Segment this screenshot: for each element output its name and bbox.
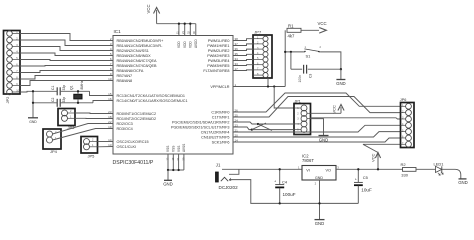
wire VCC to JP6 pin7 [363, 144, 401, 169]
svg-text:RB4/AN4/CN6/IC7/QEA: RB4/AN4/CN6/IC7/QEA [117, 59, 158, 63]
junction crystal bottom [77, 102, 79, 104]
ground GND (IC1 VSS) [167, 170, 169, 180]
svg-text:IC1: IC1 [114, 29, 122, 34]
svg-text:C1: C1 [51, 86, 55, 90]
svg-text:100uF: 100uF [283, 192, 296, 197]
svg-text:C1TX/RF1: C1TX/RF1 [212, 115, 230, 119]
wire JP7 pin 8 to MCLR net [267, 78, 269, 87]
JP2 pin 5 circle [7, 57, 13, 63]
connector JP5 (2-pin jumper) [81, 137, 98, 154]
wire IC1 to JP7 pin 5 [233, 60, 253, 61]
connector JP3 (2-pin jumper) [58, 109, 75, 126]
IC1 VSS AVSS ground pins [167, 154, 169, 170]
svg-text:RD0/INT1/OC1/EMUC2: RD0/INT1/OC1/EMUC2 [117, 112, 157, 116]
wire IC1 RF4 to JP6 pin4 [233, 125, 401, 132]
svg-text:GND: GND [458, 180, 468, 185]
svg-text:PGC/EMUC/SDI1/SDA/U1RX/RF2: PGC/EMUC/SDI1/SDA/U1RX/RF2 [172, 120, 230, 124]
resistor R1 4k7 [287, 28, 301, 32]
wire JP5 pin2 to IC1 OSC2 [98, 141, 114, 143]
voltage regulator IC2 7805T [302, 166, 336, 181]
JP6 pin 2 circle [406, 110, 412, 116]
wire JP2 pin 2 to IC1 RB1 [20, 40, 113, 46]
junction [251, 128, 253, 130]
junction [189, 23, 191, 25]
JP6 pin 6 circle [406, 135, 412, 141]
wire JP3 pin1 to IC1 RD1 [75, 117, 113, 119]
junction [177, 169, 179, 171]
ground GND (JP1) [319, 135, 329, 137]
junction [167, 169, 169, 171]
wire IC1 RF6 to JP6 pin6 [233, 138, 401, 142]
svg-text:RC14/CN0/T1CK/U1ARX/SOSCO/EMUC: RC14/CN0/T1CK/U1ARX/SOSCO/EMUC1 [117, 99, 188, 103]
junction [178, 23, 180, 25]
wire IC2 VO to VCC rail [336, 168, 403, 170]
ground GND (LED1) [459, 178, 467, 180]
JP7 pin 5 circle [263, 57, 268, 62]
svg-text:Q1: Q1 [70, 85, 74, 90]
svg-text:VI: VI [306, 169, 310, 173]
svg-text:VDD: VDD [183, 41, 187, 48]
JP7 pin 2 circle [263, 41, 268, 46]
junction [340, 68, 342, 70]
svg-text:GND: GND [315, 176, 323, 180]
junction [279, 202, 281, 204]
JP2 pin 8 circle [7, 76, 13, 82]
wire IC1 RF3 to JP1 pin5 [233, 127, 294, 130]
svg-text:AVDD: AVDD [194, 39, 198, 48]
wire C3 to ground [308, 68, 341, 70]
wire IC1 to JP7 pin 4 [233, 54, 253, 55]
svg-text:PWM2H/RE3: PWM2H/RE3 [207, 54, 229, 58]
dsPIC microcontroller IC1 body [113, 36, 233, 155]
svg-text:JP5: JP5 [88, 153, 96, 158]
wire IC1 to JP7 pin 6 [233, 64, 253, 67]
power symbol VCC (JP1) [340, 107, 342, 113]
svg-text:RB7/AN7: RB7/AN7 [117, 74, 133, 78]
wire JP1 net to JP6 pin3 [311, 118, 401, 119]
JP7 pin 8 circle [263, 73, 268, 78]
wire JP2 pin 7 to IC1 RB6 [20, 71, 113, 73]
wire IC1 RF5 to JP6 pin5 [233, 132, 401, 137]
wire MCLR riser to R1 [284, 30, 286, 86]
wire crystal to IC1 RC13 [90, 91, 114, 95]
svg-text:CN17/U2RX/RF4: CN17/U2RX/RF4 [201, 130, 230, 134]
JP7 pin 7 circle [263, 67, 268, 72]
wire JP2 pin 4 to IC1 RB3 [20, 53, 113, 56]
svg-text:C4: C4 [282, 180, 288, 185]
wire R2 to LED1 [416, 168, 436, 170]
connector JP2 (10-pin header) [4, 31, 21, 95]
svg-text:DCJ0202: DCJ0202 [219, 185, 239, 190]
svg-text:100n: 100n [298, 75, 302, 83]
JP1 pin 4 circle [301, 121, 307, 127]
JP6 pin 1 circle [406, 103, 412, 109]
junction [32, 90, 34, 92]
wire MCLR to JP1 pin1 [274, 87, 294, 109]
svg-text:C2: C2 [51, 98, 55, 102]
wire MCLR to S1 [285, 51, 303, 53]
JP1 pin 2 circle [301, 110, 307, 116]
JP7 pin 6 circle [263, 62, 268, 67]
junction [357, 168, 359, 170]
wire JP2 pin 10 (ground/crystal net) [20, 90, 57, 93]
wire J1 positive to rail [222, 168, 302, 170]
svg-text:VCC: VCC [146, 4, 151, 13]
JP2 pin 1 circle [7, 31, 13, 37]
svg-text:VDD: VDD [177, 41, 181, 48]
svg-text:7806T: 7806T [302, 158, 314, 163]
connector JP1 (5-pin ICSP header) [294, 104, 311, 135]
wire JP4 pin1 to IC1 RD3 [53, 129, 114, 141]
wire JP2 pin 6 to IC1 RB5 [20, 65, 113, 68]
svg-text:DSPIC30F4011/P: DSPIC30F4011/P [113, 160, 154, 166]
svg-text:OSC2/CLKO/RC15: OSC2/CLKO/RC15 [117, 140, 149, 144]
junction crystal top [77, 90, 79, 92]
svg-text:C1RX/RF0: C1RX/RF0 [211, 110, 229, 114]
svg-text:R2: R2 [401, 162, 407, 167]
wire JP4 pin2 to IC1 RD2 [53, 124, 114, 135]
svg-text:C5: C5 [363, 175, 369, 180]
junction [267, 85, 269, 87]
svg-text:J1: J1 [216, 162, 221, 167]
svg-text:10uF: 10uF [361, 187, 372, 192]
ground GND (crystal caps) [32, 91, 34, 117]
svg-text:RB5/AN5/CN7/IC8/QEB: RB5/AN5/CN7/IC8/QEB [117, 64, 158, 68]
svg-text:GND: GND [336, 81, 346, 86]
capacitor C2 33p (bottom) [56, 99, 58, 107]
svg-text:RB3/AN3/CN5/INDX: RB3/AN3/CN5/INDX [117, 54, 152, 58]
svg-text:RB1/AN1/CN3/EMUC3/VR-: RB1/AN1/CN3/EMUC3/VR- [117, 44, 164, 48]
wire IC1 to JP7 pin 1 [233, 39, 253, 41]
junction [172, 169, 174, 171]
VCC rail to IC1 power pins [157, 23, 196, 25]
JP6 pin 5 circle [406, 129, 412, 135]
wire IC2 GND pin to ground [319, 180, 321, 219]
junction [377, 168, 379, 170]
svg-text:RB2/AN2/CN4/SS1: RB2/AN2/CN4/SS1 [117, 49, 149, 53]
svg-text:PWM3H/RE5: PWM3H/RE5 [207, 64, 229, 68]
JP6 pin 7 circle [406, 141, 412, 147]
svg-text:OSC1/CLKI: OSC1/CLKI [117, 145, 137, 149]
svg-text:VSS: VSS [172, 146, 176, 152]
connector JP4 (2-pin jumper) [43, 129, 61, 149]
wire LED1 to ground [442, 169, 461, 178]
svg-text:JP7: JP7 [254, 30, 262, 35]
JP2 pin 9 circle [7, 83, 13, 89]
svg-text:+: + [355, 177, 357, 181]
JP2 pin 4 circle [7, 50, 13, 56]
JP6 pin 4 circle [406, 122, 412, 128]
wire C3 branch [290, 52, 292, 69]
svg-text:GND: GND [315, 221, 325, 226]
svg-text:4k7: 4k7 [288, 33, 296, 38]
svg-text:PWM1H/RE1: PWM1H/RE1 [207, 44, 229, 48]
svg-text:AVSS: AVSS [182, 144, 186, 152]
JP1 pin 1 circle [301, 105, 307, 111]
wire C2 to crystal [60, 102, 93, 104]
svg-text:RD3/OC4: RD3/OC4 [117, 127, 133, 131]
switch S1 [304, 51, 306, 53]
svg-text:JP1: JP1 [295, 100, 301, 104]
power symbol VCC (JP6 supply arrow) [375, 153, 380, 159]
svg-text:R1: R1 [288, 23, 294, 28]
wire IC1 RF2 to JP1 pin4 [233, 122, 294, 124]
wire J1 second contact [229, 169, 239, 174]
svg-text:RD2/OC3: RD2/OC3 [117, 122, 133, 126]
svg-text:RB0/AN0/CN2/EMUD3/VR+: RB0/AN0/CN2/EMUD3/VR+ [117, 39, 164, 43]
power symbol VCC (IC supply) [156, 10, 158, 24]
wire S1 to ground corner [321, 52, 341, 69]
svg-text:FLTA/INT0/RE8: FLTA/INT0/RE8 [203, 69, 229, 73]
wire ground to C2 [33, 102, 57, 104]
junction [318, 202, 320, 204]
JP2 pin 3 circle [7, 44, 13, 50]
junction [32, 102, 34, 104]
svg-text:CN18/U2TX/RF5: CN18/U2TX/RF5 [201, 135, 229, 139]
connector JP6 (7-pin header) [401, 103, 415, 148]
wire IC1 to JP7 pin 3 [233, 49, 253, 50]
junction [257, 123, 259, 125]
capacitor C4 100uF electrolytic [279, 169, 281, 184]
svg-text:JP2: JP2 [5, 96, 10, 104]
svg-text:S1: S1 [306, 54, 312, 59]
ground GND (S1/C3) [340, 69, 342, 79]
wire IC1 to JP7 pin 7 [233, 69, 253, 72]
junction [284, 51, 286, 53]
wire C1 to crystal [60, 90, 89, 92]
svg-text:VSS: VSS [166, 146, 170, 152]
svg-text:33p: 33p [62, 97, 66, 103]
JP1 pin 5 circle [301, 127, 307, 133]
wire JP2 pin 1 to IC1 RB0 [20, 34, 113, 41]
svg-text:VCC: VCC [318, 21, 327, 26]
wire IC1 MCLR [233, 86, 285, 88]
JP6 pin 3 circle [406, 116, 412, 122]
svg-text:VDD: VDD [189, 41, 193, 48]
wire JP2 pin 5 to IC1 RB4 [20, 60, 113, 61]
svg-text:PWM3L/RE4: PWM3L/RE4 [208, 59, 230, 63]
svg-text:JP4: JP4 [50, 149, 58, 154]
svg-text:RD1/INT2/OC2/EMUD2: RD1/INT2/OC2/EMUD2 [117, 117, 157, 121]
power symbol VCC (right arrow) [319, 28, 326, 34]
JP2 pin 7 circle [7, 70, 13, 76]
svg-text:PWM1L/RE0: PWM1L/RE0 [208, 39, 230, 43]
wire JP2 pin 8 to IC1 RB7 [20, 76, 113, 80]
svg-text:VCC: VCC [332, 105, 337, 114]
svg-text:RC13/CN1/T2CK/U1ATX/SOSCI/EMUD: RC13/CN1/T2CK/U1ATX/SOSCI/EMUD1 [117, 94, 186, 98]
svg-text:RB6/AN6/OCFA: RB6/AN6/OCFA [117, 69, 144, 73]
svg-text:JP6: JP6 [400, 98, 407, 102]
capacitor C5 10uF electrolytic [357, 169, 359, 182]
wire crystal to IC1 RC14 [93, 101, 113, 103]
junction [279, 168, 281, 170]
svg-text:VSS: VSS [177, 146, 181, 152]
JP2 pin 10 circle [7, 89, 13, 95]
wire crossover diagonal B [252, 123, 266, 130]
svg-text:GND: GND [163, 181, 173, 186]
svg-text:VCC: VCC [371, 153, 376, 162]
svg-text:+: + [274, 179, 276, 183]
wire IC1 to JP7 pin 2 [233, 44, 253, 46]
wire R1 to VCC [301, 29, 319, 31]
wire JP5 pin1 to IC1 OSC1 [98, 146, 114, 148]
JP2 pin 6 circle [7, 63, 13, 69]
capacitor C3 100n [303, 65, 305, 74]
wire JP1 pin2 to VCC [311, 112, 342, 114]
wire IC1 RF1 to JP6 pin2 [233, 97, 401, 118]
svg-text:8MHz: 8MHz [80, 80, 84, 89]
wire J1 return to ground rail [229, 180, 358, 204]
junction [273, 85, 275, 87]
junction [290, 51, 292, 53]
JP7 pin 4 circle [263, 52, 268, 57]
LED LED1 [436, 166, 442, 172]
ground GND (power supply) [315, 219, 325, 221]
wire JP2 pin 3 to IC1 RB2 [20, 47, 113, 51]
svg-text:PWM2L/RE2: PWM2L/RE2 [208, 49, 230, 53]
wire JP2 pin 9 to IC1 RB8 [20, 81, 113, 86]
IC1 VDD AVDD power pins [178, 24, 180, 36]
JP7 pin 3 circle [263, 47, 268, 52]
wire VSS bus [168, 169, 184, 171]
wire IC1 RF0 to JP6 pin1 [233, 93, 401, 112]
JP7 pin 1 circle [263, 36, 268, 41]
JP2 pin 2 circle [7, 37, 13, 43]
resistor R2 330 [403, 168, 417, 172]
crystal Q1 8MHz [74, 94, 82, 99]
capacitor C1 33p (top) [56, 87, 58, 95]
svg-text:RB8/AN8: RB8/AN8 [117, 79, 133, 83]
svg-text:LED1: LED1 [434, 162, 445, 167]
svg-text:330: 330 [401, 172, 408, 177]
junction [184, 23, 186, 25]
svg-text:GND: GND [29, 120, 37, 124]
wire JP3 pin2 to IC1 RD0 [75, 112, 113, 115]
connector JP7 (8-pin header) [253, 35, 272, 78]
svg-text:SCK1/RF6: SCK1/RF6 [212, 140, 230, 144]
svg-text:PGD/EMUD/SDO1/SCL/U1TX/RF3: PGD/EMUD/SDO1/SCL/U1TX/RF3 [171, 125, 230, 129]
svg-text:33p: 33p [62, 85, 66, 91]
svg-text:VO: VO [326, 169, 332, 173]
svg-text:C3: C3 [309, 74, 313, 78]
svg-text:VPP/MCLR: VPP/MCLR [210, 85, 229, 89]
JP1 pin 3 circle [301, 116, 307, 122]
wire crossover diagonal A [258, 124, 272, 131]
wire JP1 pin3 to ground [311, 119, 324, 136]
